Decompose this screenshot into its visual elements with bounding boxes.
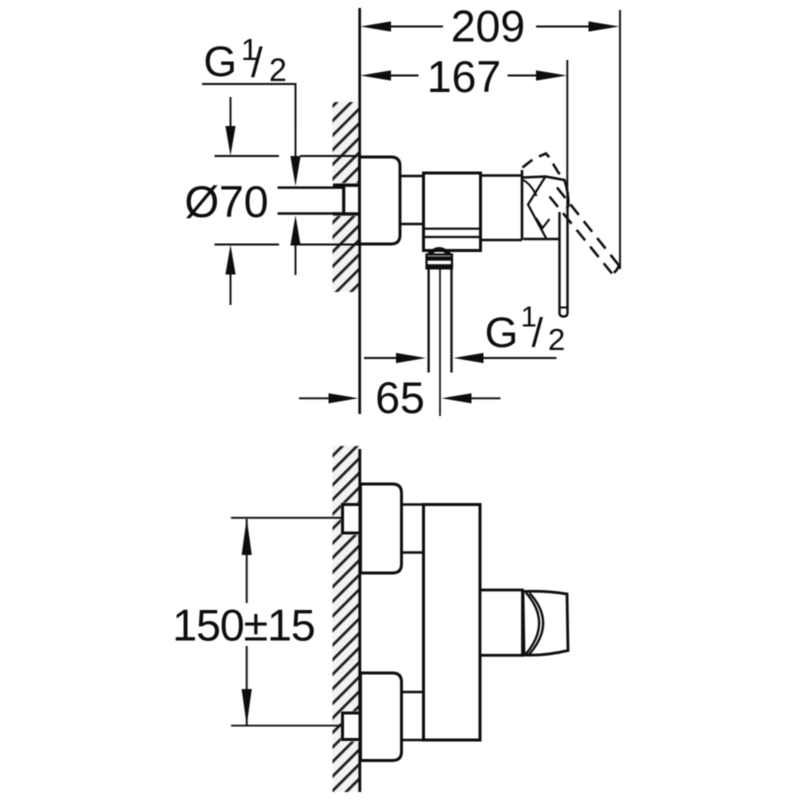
dome inner chevron — [536, 218, 550, 228]
arrowhead right of 209 — [589, 21, 620, 31]
dimension 150±15 — [246, 519, 248, 603]
body (front view) — [424, 505, 481, 741]
supply union nut behind wall — [333, 183, 359, 186]
lever end cap line — [560, 307, 568, 309]
cartridge face line — [521, 170, 524, 240]
leader bracket of top G 1/2 — [202, 84, 296, 128]
lower union extension line — [231, 725, 342, 727]
dome curve near cartridge — [523, 180, 537, 196]
lower escutcheon (front view) — [361, 673, 402, 761]
outlet stub below body — [429, 249, 450, 255]
knob crescent highlight — [529, 593, 543, 655]
outlet union nut — [427, 255, 453, 269]
shower outlet pipe — [427, 269, 429, 373]
upper S-union white cutout — [341, 503, 360, 535]
svg-text:167: 167 — [427, 53, 501, 102]
upper escutcheon (front view) — [361, 484, 402, 573]
handle dome (solid, closed position) — [523, 177, 568, 217]
body groove lines — [424, 228, 481, 230]
arrowhead right of 167 — [536, 70, 567, 80]
handle neck (front view) — [480, 590, 523, 655]
dimension line 167 — [390, 75, 537, 77]
handle knob (front view) — [523, 591, 568, 655]
svg-text:150±15: 150±15 — [172, 602, 314, 651]
dimension 65 — [299, 397, 330, 399]
wall hatch band (top figure) — [333, 102, 360, 292]
down arrowhead of 150±15 — [242, 689, 252, 725]
dashed lever end cap — [612, 266, 619, 274]
pipe center line — [439, 269, 441, 417]
extension line right of 209 (handle tip) — [619, 10, 621, 269]
Ø70 down arrow — [230, 97, 232, 128]
neck between escutcheon and body — [400, 175, 424, 177]
down arrow of G1/2 at pipe top — [290, 156, 300, 186]
Ø70 up arrow — [225, 245, 235, 275]
arrowhead left of 167 — [360, 70, 391, 80]
svg-text:/: / — [532, 310, 544, 356]
Ø70 extension line bottom — [215, 244, 360, 246]
dashed lever (open position) lower line — [550, 197, 613, 274]
upper neck (front view) — [402, 503, 425, 506]
svg-text:2: 2 — [269, 52, 287, 88]
valve body (side view) — [424, 173, 481, 251]
svg-text:65: 65 — [375, 374, 425, 423]
dashed dome (raised position) — [523, 154, 565, 181]
supply pipe behind wall — [278, 186, 345, 189]
up arrow of G1/2 at pipe bottom — [290, 215, 300, 245]
upper S-union nut — [343, 505, 361, 534]
dome inner edge V — [528, 177, 546, 239]
Ø70 extension line top — [215, 155, 358, 157]
svg-text:/: / — [251, 39, 263, 86]
svg-text:209: 209 — [451, 3, 525, 52]
wall hatch band (bottom figure) — [333, 446, 360, 792]
cartridge housing (side view) — [481, 174, 523, 176]
dimension line 209 — [390, 26, 590, 28]
svg-text:2: 2 — [548, 322, 565, 357]
outlet thread arrows (point at pipe) — [364, 357, 398, 359]
dashed lever (open position) upper line — [557, 188, 619, 266]
upper union extension line — [231, 517, 342, 519]
arrowhead left of 209 — [360, 21, 391, 31]
svg-text:G: G — [485, 309, 518, 357]
dome bottom edge — [524, 238, 561, 241]
up arrowhead of 150±15 — [242, 518, 252, 555]
lever (solid, vertical position) — [560, 207, 568, 317]
lower S-union nut — [343, 713, 361, 740]
wall cutout for supply union — [333, 183, 360, 216]
svg-text:G: G — [204, 38, 237, 86]
wall surface line (bottom figure) — [358, 449, 361, 792]
lower S-union white cutout — [341, 711, 360, 741]
escutcheon (side view) — [360, 157, 401, 244]
wall surface line + extension up to 209 dim (top figure) — [358, 8, 361, 414]
label G 1/2 (top, supply thread) — [204, 32, 287, 88]
lower neck (front view) — [402, 691, 425, 694]
extension line for 167 (front of cartridge dome) — [566, 60, 568, 206]
label G 1/2 (middle, shower outlet thread) — [485, 302, 565, 358]
svg-text:Ø70: Ø70 — [184, 178, 268, 227]
